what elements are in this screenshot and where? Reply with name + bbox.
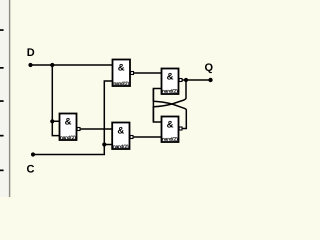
wire U1 output to U4 input A	[134, 72, 162, 74]
wire D to U1 input A	[31, 64, 113, 66]
junction on D wire	[50, 63, 54, 67]
wire loop to U2 input B	[52, 121, 59, 135]
svg-text:&: &	[117, 126, 124, 137]
svg-text:nand(2): nand(2)	[162, 89, 178, 94]
junction on Q wire	[184, 78, 188, 82]
svg-text:C: C	[27, 164, 35, 176]
svg-text:nand(2): nand(2)	[60, 135, 76, 140]
svg-text:nand(2): nand(2)	[113, 81, 129, 86]
wire U4 output to node Q	[182, 79, 211, 81]
NAND gate U2	[60, 114, 81, 141]
wire U4 output cross to U5 input A	[153, 80, 186, 122]
NAND gate U4	[162, 69, 183, 95]
junction at U2 input A	[50, 119, 54, 123]
node Q	[205, 62, 214, 82]
node D	[27, 47, 35, 67]
svg-text:&: &	[118, 63, 125, 74]
svg-text:&: &	[167, 120, 174, 131]
wire C junction to U3 input B	[104, 144, 112, 146]
NAND gate U3	[112, 123, 133, 150]
svg-text:nand(2): nand(2)	[113, 144, 129, 149]
wire U2 output to U3 input A	[80, 128, 112, 130]
wire from D junction down to U2 input A	[52, 65, 59, 121]
svg-text:Q: Q	[205, 62, 214, 74]
NAND gate U5	[162, 117, 183, 143]
wire U5 output cross to U4 input B	[153, 89, 186, 129]
wire left riser of cross	[152, 89, 154, 123]
junction on C riser	[102, 142, 106, 146]
wire U3 output to U5 input B	[133, 136, 162, 138]
svg-text:nand(2): nand(2)	[162, 137, 178, 142]
NAND gate U1	[113, 60, 134, 87]
svg-text:D: D	[27, 47, 35, 59]
svg-text:&: &	[65, 117, 72, 128]
svg-text:&: &	[167, 72, 174, 83]
wire C up to U1 input B	[33, 81, 113, 155]
node C	[27, 152, 36, 175]
